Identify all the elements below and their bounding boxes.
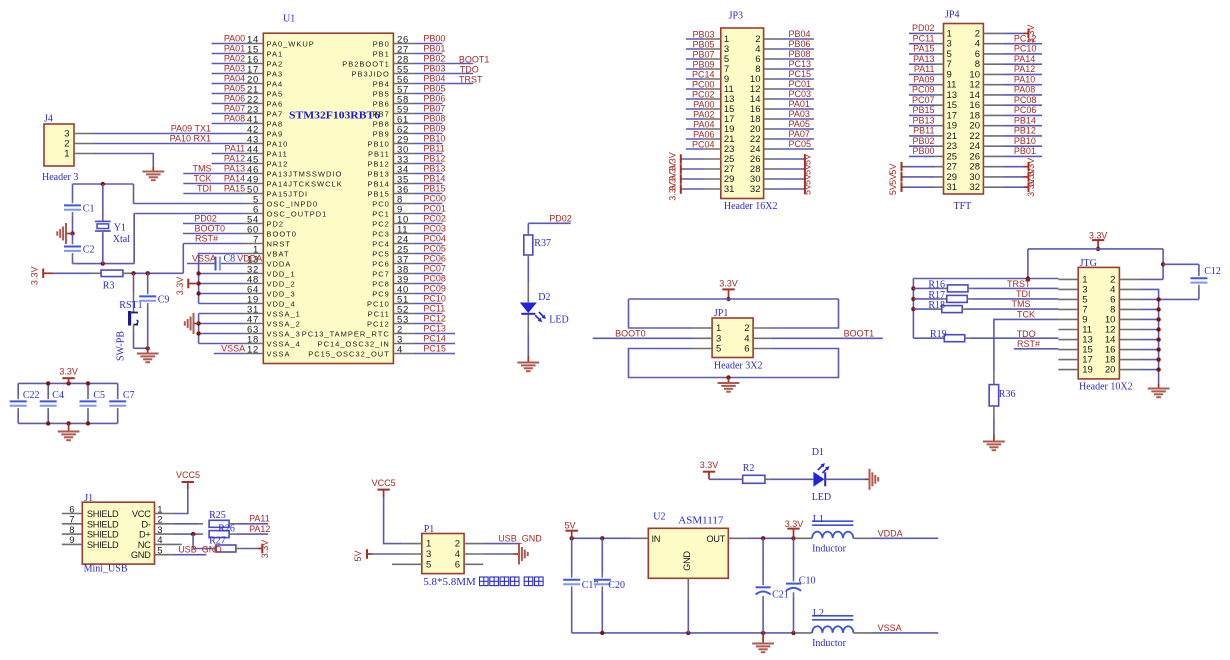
svg-text:C2: C2 <box>83 245 95 256</box>
svg-text:TCK: TCK <box>1017 309 1035 319</box>
svg-text:PC03: PC03 <box>789 89 812 99</box>
svg-text:PC02: PC02 <box>423 213 446 223</box>
svg-text:PA0_WKUP: PA0_WKUP <box>267 39 315 48</box>
svg-text:Header 3: Header 3 <box>42 172 78 183</box>
svg-text:PB10: PB10 <box>423 133 445 143</box>
svg-text:PB6: PB6 <box>373 99 390 108</box>
svg-text:PC01: PC01 <box>789 79 812 89</box>
svg-text:PB11: PB11 <box>913 126 934 136</box>
svg-text:VCC5: VCC5 <box>372 478 396 488</box>
svg-text:VSSA_3: VSSA_3 <box>267 329 301 338</box>
svg-text:PA12: PA12 <box>224 153 245 163</box>
svg-text:PA13: PA13 <box>224 163 245 173</box>
svg-text:VSSA_4: VSSA_4 <box>267 339 301 348</box>
svg-text:BOOT1: BOOT1 <box>459 54 490 64</box>
svg-text:TDI: TDI <box>197 183 212 193</box>
svg-text:PC00: PC00 <box>692 79 715 89</box>
svg-text:5V: 5V <box>888 164 898 175</box>
svg-text:R36: R36 <box>999 389 1016 400</box>
svg-text:PA7: PA7 <box>267 109 284 118</box>
svg-text:SHIELD: SHIELD <box>87 540 119 550</box>
svg-text:BOOT0: BOOT0 <box>267 229 297 238</box>
svg-text:VDDA: VDDA <box>267 259 292 268</box>
svg-text:Header 10X2: Header 10X2 <box>1079 382 1133 393</box>
svg-text:PB1: PB1 <box>373 49 390 58</box>
svg-text:PB13: PB13 <box>367 169 389 178</box>
svg-text:PA06: PA06 <box>693 129 714 139</box>
svg-text:PC5: PC5 <box>372 249 390 258</box>
svg-text:3.3V: 3.3V <box>59 367 78 377</box>
svg-text:C8: C8 <box>224 254 236 265</box>
svg-text:PA11: PA11 <box>249 514 270 524</box>
svg-text:PB06: PB06 <box>789 39 811 49</box>
svg-text:PC15_OSC32_OUT: PC15_OSC32_OUT <box>308 349 390 358</box>
svg-text:PB12: PB12 <box>423 153 445 163</box>
svg-text:PB04: PB04 <box>789 29 811 39</box>
svg-text:C9: C9 <box>158 295 170 306</box>
svg-text:PB5: PB5 <box>373 89 390 98</box>
svg-text:C21: C21 <box>772 590 789 601</box>
svg-text:PB02: PB02 <box>912 136 934 146</box>
svg-text:3.3V: 3.3V <box>700 460 719 470</box>
svg-text:OSC_OUTPD1: OSC_OUTPD1 <box>267 209 328 218</box>
svg-text:TMS: TMS <box>1012 299 1031 309</box>
svg-text:IN: IN <box>652 534 661 544</box>
svg-text:PC15: PC15 <box>423 343 446 353</box>
svg-text:PA15: PA15 <box>913 44 934 54</box>
svg-text:PA10 RX1: PA10 RX1 <box>170 133 211 143</box>
svg-text:PB07: PB07 <box>692 49 714 59</box>
svg-text:TDI: TDI <box>1016 289 1031 299</box>
svg-text:Header 16X2: Header 16X2 <box>724 201 778 212</box>
svg-text:PC10: PC10 <box>367 299 390 308</box>
svg-text:5V: 5V <box>564 521 575 531</box>
svg-text:PA07: PA07 <box>224 103 245 113</box>
svg-text:2: 2 <box>455 539 460 550</box>
svg-text:R2: R2 <box>743 463 755 474</box>
svg-text:PC4: PC4 <box>372 239 390 248</box>
svg-text:NC: NC <box>138 540 151 550</box>
svg-text:PB02: PB02 <box>423 53 445 63</box>
svg-text:31: 31 <box>947 182 958 193</box>
svg-text:PC15: PC15 <box>789 69 812 79</box>
svg-text:D+: D+ <box>139 530 150 540</box>
svg-text:ASM1117: ASM1117 <box>678 515 724 527</box>
svg-text:PC05: PC05 <box>423 243 446 253</box>
svg-text:PB07: PB07 <box>423 103 445 113</box>
svg-text:GND: GND <box>682 551 692 571</box>
svg-text:PA13JTMSSWDIO: PA13JTMSSWDIO <box>267 169 343 178</box>
svg-text:RST1: RST1 <box>119 300 142 311</box>
svg-text:PB04: PB04 <box>423 73 445 83</box>
svg-text:PC2: PC2 <box>372 219 390 228</box>
svg-text:SHIELD: SHIELD <box>87 509 119 519</box>
svg-text:RST#: RST# <box>1017 339 1040 349</box>
svg-text:32: 32 <box>969 182 980 193</box>
svg-text:PA5: PA5 <box>267 89 284 98</box>
svg-text:PB2BOOT1: PB2BOOT1 <box>342 59 390 68</box>
svg-text:RST#: RST# <box>195 233 218 243</box>
svg-text:PB9: PB9 <box>373 129 390 138</box>
svg-text:PB08: PB08 <box>423 113 445 123</box>
svg-text:PA04: PA04 <box>693 119 714 129</box>
svg-text:VSSA: VSSA <box>878 623 902 633</box>
svg-text:PA00: PA00 <box>224 33 245 43</box>
svg-text:5V: 5V <box>888 174 898 185</box>
svg-text:PB11: PB11 <box>368 149 390 158</box>
svg-text:PB01: PB01 <box>1014 146 1036 156</box>
svg-text:PB14: PB14 <box>367 179 389 188</box>
svg-text:PC07: PC07 <box>423 263 446 273</box>
svg-text:VCC: VCC <box>132 509 151 519</box>
svg-text:31: 31 <box>724 184 735 195</box>
svg-text:PD02: PD02 <box>912 23 935 33</box>
svg-text:PC01: PC01 <box>423 203 446 213</box>
svg-text:PA05: PA05 <box>789 119 810 129</box>
svg-text:PB13: PB13 <box>423 163 445 173</box>
svg-text:USB_GND: USB_GND <box>178 545 222 555</box>
svg-text:PC12: PC12 <box>367 319 390 328</box>
svg-text:JP4: JP4 <box>945 10 959 21</box>
svg-text:PB14: PB14 <box>1014 115 1036 125</box>
svg-text:PC8: PC8 <box>372 279 390 288</box>
svg-text:VSSA_1: VSSA_1 <box>267 309 301 318</box>
svg-text:NRST: NRST <box>267 239 291 248</box>
svg-text:6: 6 <box>744 344 749 355</box>
svg-text:PA00: PA00 <box>693 99 714 109</box>
svg-text:PC14: PC14 <box>692 69 715 79</box>
svg-text:PB10: PB10 <box>1014 136 1036 146</box>
svg-text:VDDA: VDDA <box>237 254 262 264</box>
svg-text:PC9: PC9 <box>372 289 390 298</box>
svg-text:4: 4 <box>397 344 403 355</box>
svg-text:D2: D2 <box>538 292 550 303</box>
svg-text:3.3V: 3.3V <box>785 519 804 529</box>
svg-text:32: 32 <box>750 184 761 195</box>
svg-text:D1: D1 <box>812 447 824 458</box>
svg-text:TRST: TRST <box>1007 279 1031 289</box>
svg-text:PC13: PC13 <box>789 59 812 69</box>
svg-text:PB12: PB12 <box>367 159 389 168</box>
svg-text:R37: R37 <box>534 238 551 249</box>
svg-text:PC13: PC13 <box>423 323 446 333</box>
svg-text:PC06: PC06 <box>1014 105 1037 115</box>
svg-text:PA1: PA1 <box>267 49 284 58</box>
svg-text:TRST: TRST <box>459 74 483 84</box>
svg-text:5V: 5V <box>888 184 898 195</box>
svg-text:PB11: PB11 <box>423 143 444 153</box>
svg-text:PA01: PA01 <box>789 99 810 109</box>
svg-text:U2: U2 <box>653 512 665 523</box>
svg-text:PB09: PB09 <box>423 123 445 133</box>
svg-text:R18: R18 <box>928 300 945 311</box>
svg-text:PA09: PA09 <box>913 74 934 84</box>
svg-text:R26: R26 <box>218 524 235 535</box>
svg-text:PB3JIDO: PB3JIDO <box>352 69 390 78</box>
svg-text:OSC_INPD0: OSC_INPD0 <box>267 199 319 208</box>
svg-text:Xtal: Xtal <box>113 234 130 245</box>
svg-text:VSSA: VSSA <box>192 253 216 263</box>
svg-text:PB7: PB7 <box>373 109 390 118</box>
svg-text:PB08: PB08 <box>789 49 811 59</box>
svg-text:PD2: PD2 <box>267 219 285 228</box>
svg-text:12: 12 <box>247 344 259 355</box>
svg-text:PB01: PB01 <box>423 43 445 53</box>
svg-text:R19: R19 <box>930 329 947 340</box>
svg-text:3.3V: 3.3V <box>30 267 40 286</box>
svg-text:C12: C12 <box>1204 266 1221 277</box>
svg-text:PC14: PC14 <box>423 333 446 343</box>
svg-text:PA07: PA07 <box>789 129 810 139</box>
svg-text:TCK: TCK <box>194 173 212 183</box>
svg-text:C7: C7 <box>123 390 135 401</box>
svg-text:5V: 5V <box>802 174 812 185</box>
svg-text:PA13: PA13 <box>913 54 934 64</box>
svg-text:PA12: PA12 <box>1014 64 1035 74</box>
svg-text:P1: P1 <box>424 524 435 535</box>
svg-text:9: 9 <box>69 535 74 546</box>
svg-text:TMS: TMS <box>193 163 212 173</box>
svg-text:3.3V: 3.3V <box>667 182 677 201</box>
svg-text:PC04: PC04 <box>692 139 715 149</box>
svg-text:PC11: PC11 <box>368 309 390 318</box>
svg-text:PA03: PA03 <box>224 63 245 73</box>
svg-text:BOOT0: BOOT0 <box>194 223 225 233</box>
svg-text:PB05: PB05 <box>423 83 445 93</box>
svg-text:3.3V: 3.3V <box>260 540 270 559</box>
svg-text:D-: D- <box>141 519 150 529</box>
svg-text:PA10: PA10 <box>1014 74 1035 84</box>
svg-text:5V: 5V <box>802 154 812 165</box>
svg-text:R25: R25 <box>209 510 226 521</box>
svg-text:5: 5 <box>157 546 162 557</box>
svg-text:PA08: PA08 <box>224 113 245 123</box>
svg-text:LED: LED <box>812 492 831 503</box>
svg-text:PA11: PA11 <box>225 143 246 153</box>
svg-text:3.3V: 3.3V <box>719 278 738 288</box>
svg-text:PD02: PD02 <box>549 213 572 223</box>
svg-text:PA09 TX1: PA09 TX1 <box>171 123 211 133</box>
svg-text:J1: J1 <box>84 493 93 504</box>
svg-text:PC7: PC7 <box>372 269 390 278</box>
svg-text:PC0: PC0 <box>372 199 390 208</box>
svg-text:VDD_3: VDD_3 <box>267 289 296 298</box>
svg-text:VDD_4: VDD_4 <box>267 299 296 308</box>
svg-text:USB_GND: USB_GND <box>498 533 542 543</box>
svg-text:BOOT0: BOOT0 <box>615 328 646 338</box>
svg-text:PB14: PB14 <box>423 173 445 183</box>
svg-text:PB05: PB05 <box>692 39 714 49</box>
svg-text:PB10: PB10 <box>367 139 389 148</box>
svg-text:TDO: TDO <box>460 64 479 74</box>
svg-text:PC3: PC3 <box>372 229 390 238</box>
svg-text:PA06: PA06 <box>224 93 245 103</box>
svg-text:PB03: PB03 <box>423 63 445 73</box>
svg-text:VDD_1: VDD_1 <box>267 269 296 278</box>
svg-text:C10: C10 <box>799 576 816 587</box>
svg-text:C17: C17 <box>582 580 599 591</box>
svg-text:3.3V: 3.3V <box>175 277 185 296</box>
svg-text:SW-PB: SW-PB <box>116 331 127 361</box>
svg-text:5: 5 <box>426 559 431 570</box>
svg-text:6: 6 <box>455 559 460 570</box>
svg-text:PB15: PB15 <box>423 183 445 193</box>
svg-text:PA12: PA12 <box>249 524 270 534</box>
svg-text:PA9: PA9 <box>267 129 284 138</box>
svg-text:Inductor: Inductor <box>812 544 847 555</box>
svg-text:PA2: PA2 <box>267 59 284 68</box>
svg-text:PC05: PC05 <box>789 139 812 149</box>
svg-text:OUT: OUT <box>706 534 725 544</box>
svg-text:U1: U1 <box>283 14 295 25</box>
svg-text:3.3V: 3.3V <box>1089 230 1108 240</box>
svg-text:PC07: PC07 <box>912 95 935 105</box>
svg-text:PB8: PB8 <box>373 119 390 128</box>
svg-text:TDO: TDO <box>1017 329 1036 339</box>
svg-text:R16: R16 <box>928 279 945 290</box>
svg-text:PB13: PB13 <box>912 115 934 125</box>
svg-text:R3: R3 <box>103 281 115 292</box>
svg-text:PA08: PA08 <box>1014 85 1035 95</box>
svg-text:PC11: PC11 <box>913 33 935 43</box>
svg-text:C5: C5 <box>93 390 105 401</box>
svg-text:20: 20 <box>1105 365 1116 376</box>
svg-text:C1: C1 <box>83 204 95 215</box>
svg-text:PA02: PA02 <box>224 53 245 63</box>
svg-text:PC08: PC08 <box>423 273 446 283</box>
svg-text:VBAT: VBAT <box>267 249 290 258</box>
svg-text:L1: L1 <box>813 514 824 525</box>
svg-text:C22: C22 <box>23 390 40 401</box>
svg-text:PA03: PA03 <box>789 109 810 119</box>
svg-text:PC03: PC03 <box>423 223 446 233</box>
svg-text:PA04: PA04 <box>224 73 245 83</box>
svg-text:VCC5: VCC5 <box>176 470 200 480</box>
svg-text:PB00: PB00 <box>912 146 934 156</box>
svg-text:PA15: PA15 <box>224 183 245 193</box>
svg-text:3.3V: 3.3V <box>1026 178 1036 197</box>
svg-text:PA14: PA14 <box>224 173 245 183</box>
svg-text:PA8: PA8 <box>267 119 284 128</box>
svg-text:PB12: PB12 <box>1014 126 1036 136</box>
svg-text:5V: 5V <box>802 184 812 195</box>
svg-text:JP1: JP1 <box>714 308 728 319</box>
svg-text:Inductor: Inductor <box>812 638 847 649</box>
svg-text:PA15JTDI: PA15JTDI <box>267 189 309 198</box>
svg-text:PA3: PA3 <box>267 69 284 78</box>
svg-text:PC11: PC11 <box>423 303 445 313</box>
svg-text:PA10: PA10 <box>267 139 289 148</box>
svg-text:PB4: PB4 <box>373 79 390 88</box>
svg-text:1: 1 <box>426 539 431 550</box>
svg-text:VDDA: VDDA <box>878 528 903 538</box>
svg-text:PC14_OSC32_IN: PC14_OSC32_IN <box>318 339 390 348</box>
svg-text:PA12: PA12 <box>267 159 289 168</box>
svg-text:PC12: PC12 <box>423 313 446 323</box>
svg-text:PB15: PB15 <box>367 189 389 198</box>
svg-text:PB15: PB15 <box>912 105 934 115</box>
svg-text:PC12: PC12 <box>1014 33 1037 43</box>
svg-text:5.8*5.8MM: 5.8*5.8MM <box>423 576 476 588</box>
svg-text:SHIELD: SHIELD <box>87 519 119 529</box>
svg-text:5V: 5V <box>353 550 363 561</box>
svg-text:VSSA: VSSA <box>221 343 245 353</box>
svg-text:PB00: PB00 <box>423 33 445 43</box>
svg-text:PA14: PA14 <box>1014 54 1035 64</box>
svg-text:PA6: PA6 <box>267 99 284 108</box>
svg-text:JTG: JTG <box>1080 258 1097 269</box>
svg-text:19: 19 <box>1082 365 1093 376</box>
svg-text:PB09: PB09 <box>692 59 714 69</box>
svg-text:Y1: Y1 <box>114 223 126 234</box>
svg-text:PC08: PC08 <box>1014 95 1037 105</box>
svg-text:PC10: PC10 <box>423 293 446 303</box>
svg-text:PC02: PC02 <box>692 89 715 99</box>
svg-text:PA01: PA01 <box>224 43 245 53</box>
svg-text:PC6: PC6 <box>372 259 390 268</box>
svg-text:PA02: PA02 <box>693 109 714 119</box>
svg-text:5: 5 <box>716 344 721 355</box>
svg-text:PA11: PA11 <box>267 149 288 158</box>
svg-text:L2: L2 <box>813 608 824 619</box>
svg-text:PC06: PC06 <box>423 253 446 263</box>
svg-text:TFT: TFT <box>954 201 972 212</box>
svg-text:PC13_TAMPER_RTC: PC13_TAMPER_RTC <box>302 329 390 338</box>
svg-text:PC1: PC1 <box>372 209 390 218</box>
svg-text:VSSA: VSSA <box>267 349 291 358</box>
svg-text:SHIELD: SHIELD <box>87 530 119 540</box>
svg-text:PC10: PC10 <box>1014 44 1037 54</box>
svg-text:BOOT1: BOOT1 <box>844 328 875 338</box>
svg-text:GND: GND <box>131 550 151 560</box>
svg-text:1: 1 <box>64 149 69 160</box>
svg-text:Mini_USB: Mini_USB <box>84 564 128 575</box>
svg-text:PD02: PD02 <box>194 213 217 223</box>
svg-text:5V: 5V <box>802 164 812 175</box>
svg-text:Header 3X2: Header 3X2 <box>714 361 763 372</box>
svg-text:PC09: PC09 <box>423 283 446 293</box>
svg-text:PA4: PA4 <box>267 79 284 88</box>
svg-text:PB06: PB06 <box>423 93 445 103</box>
svg-text:PB0: PB0 <box>373 39 390 48</box>
svg-text:C20: C20 <box>608 580 625 591</box>
svg-text:PC09: PC09 <box>912 85 935 95</box>
svg-text:PA11: PA11 <box>914 64 935 74</box>
svg-text:C4: C4 <box>52 390 64 401</box>
svg-text:PC00: PC00 <box>423 193 446 203</box>
svg-text:PA14JTCKSWCLK: PA14JTCKSWCLK <box>267 179 343 188</box>
svg-text:LED: LED <box>549 315 568 326</box>
svg-text:VSSA_2: VSSA_2 <box>267 319 301 328</box>
svg-text:J4: J4 <box>44 114 53 125</box>
svg-text:PA05: PA05 <box>224 83 245 93</box>
svg-text:JP3: JP3 <box>729 11 743 22</box>
svg-text:VDD_2: VDD_2 <box>267 279 296 288</box>
svg-text:PC04: PC04 <box>423 233 446 243</box>
svg-text:PB03: PB03 <box>692 29 714 39</box>
svg-text:STM32F103RBT6: STM32F103RBT6 <box>289 111 380 122</box>
